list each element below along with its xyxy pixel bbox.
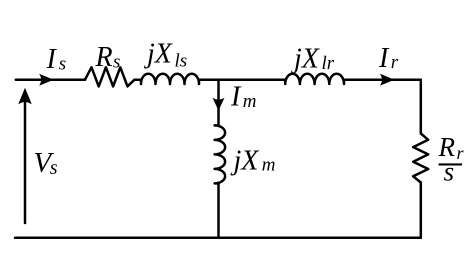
svg-text:s: s — [444, 157, 455, 187]
svg-text:r: r — [457, 143, 465, 163]
wire top-left segment — [16, 78, 85, 81]
svg-text:R: R — [95, 42, 113, 73]
svg-text:r: r — [391, 52, 399, 73]
wire right branch upper lead — [420, 80, 423, 134]
svg-text:I: I — [378, 43, 390, 74]
inductor jX_m — [215, 125, 226, 183]
arrowhead I_s — [39, 74, 54, 86]
resistor R_s — [85, 67, 135, 86]
inductor jX_lr — [285, 74, 344, 84]
svg-text:m: m — [243, 91, 257, 112]
wire right branch lower lead — [420, 183, 423, 238]
svg-text:jX: jX — [144, 39, 173, 70]
svg-text:jX: jX — [291, 44, 320, 75]
svg-text:jX: jX — [231, 145, 260, 176]
wire resistor to coil — [135, 78, 141, 81]
svg-text:lr: lr — [322, 53, 335, 74]
wire coil to top-right corner — [344, 78, 421, 81]
wire middle branch lower lead — [217, 183, 220, 237]
wire coil to coil (through node) — [199, 78, 285, 81]
arrowhead I_m — [213, 98, 225, 111]
svg-text:m: m — [262, 155, 276, 176]
inductor jX_ls — [141, 74, 199, 84]
svg-text:s: s — [59, 54, 66, 75]
wire bottom rail — [15, 237, 421, 240]
svg-text:ls: ls — [175, 51, 188, 72]
svg-text:I: I — [46, 44, 58, 75]
fraction bar of R_r/s — [439, 163, 462, 165]
arrowhead I_r — [380, 74, 395, 86]
svg-text:I: I — [230, 82, 242, 113]
wire middle branch upper lead — [217, 80, 220, 126]
svg-text:s: s — [113, 51, 120, 72]
resistor R_r/s — [413, 134, 428, 183]
arrowhead V_s — [18, 88, 32, 105]
svg-text:s: s — [50, 157, 58, 179]
wire V_s arrow shaft — [24, 92, 27, 223]
